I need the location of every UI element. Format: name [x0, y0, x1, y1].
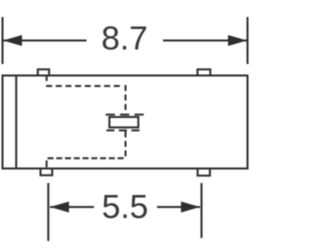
dimension line 8.7 left segment	[4, 40, 87, 42]
bottom-left terminal tab	[41, 169, 53, 176]
hidden outline: bottom horizontal dashed line	[48, 157, 124, 159]
adjuster slot hidden edge top	[106, 114, 146, 116]
top-left terminal tab	[38, 69, 49, 76]
hidden outline: top horizontal dashed line	[46, 85, 120, 87]
dimension line 5.5 left segment	[50, 206, 94, 208]
svg-text:5.5: 5.5	[102, 189, 149, 226]
arrowhead left (5.5)	[50, 202, 69, 213]
dimension line 8.7 right segment	[163, 40, 247, 42]
top-right terminal tab	[198, 69, 211, 76]
hidden outline: stub to bottom edge	[46, 160, 48, 167]
arrowhead right (5.5)	[181, 202, 200, 213]
adjuster screw slot	[109, 117, 138, 127]
adjuster slot hidden edge bottom	[106, 129, 142, 131]
internal vertical line (left wall)	[15, 76, 17, 169]
extension line left (5.5 dim)	[47, 183, 49, 241]
arrowhead left (8.7)	[3, 35, 22, 46]
extension line left (8.7 dim)	[2, 17, 4, 64]
hidden outline: stub from top edge	[46, 77, 48, 82]
hidden outline: right vertical dashed line below slot	[125, 131, 127, 158]
hidden outline: right vertical dashed line above slot	[125, 85, 127, 114]
dimension line 5.5 right segment	[157, 206, 200, 208]
bottom-right terminal tab	[198, 169, 210, 176]
extension line right (5.5 dim)	[201, 183, 203, 238]
extension line right (8.7 dim)	[247, 17, 249, 64]
component body outline	[3, 76, 248, 169]
arrowhead right (8.7)	[228, 35, 247, 46]
svg-text:8.7: 8.7	[101, 21, 148, 58]
